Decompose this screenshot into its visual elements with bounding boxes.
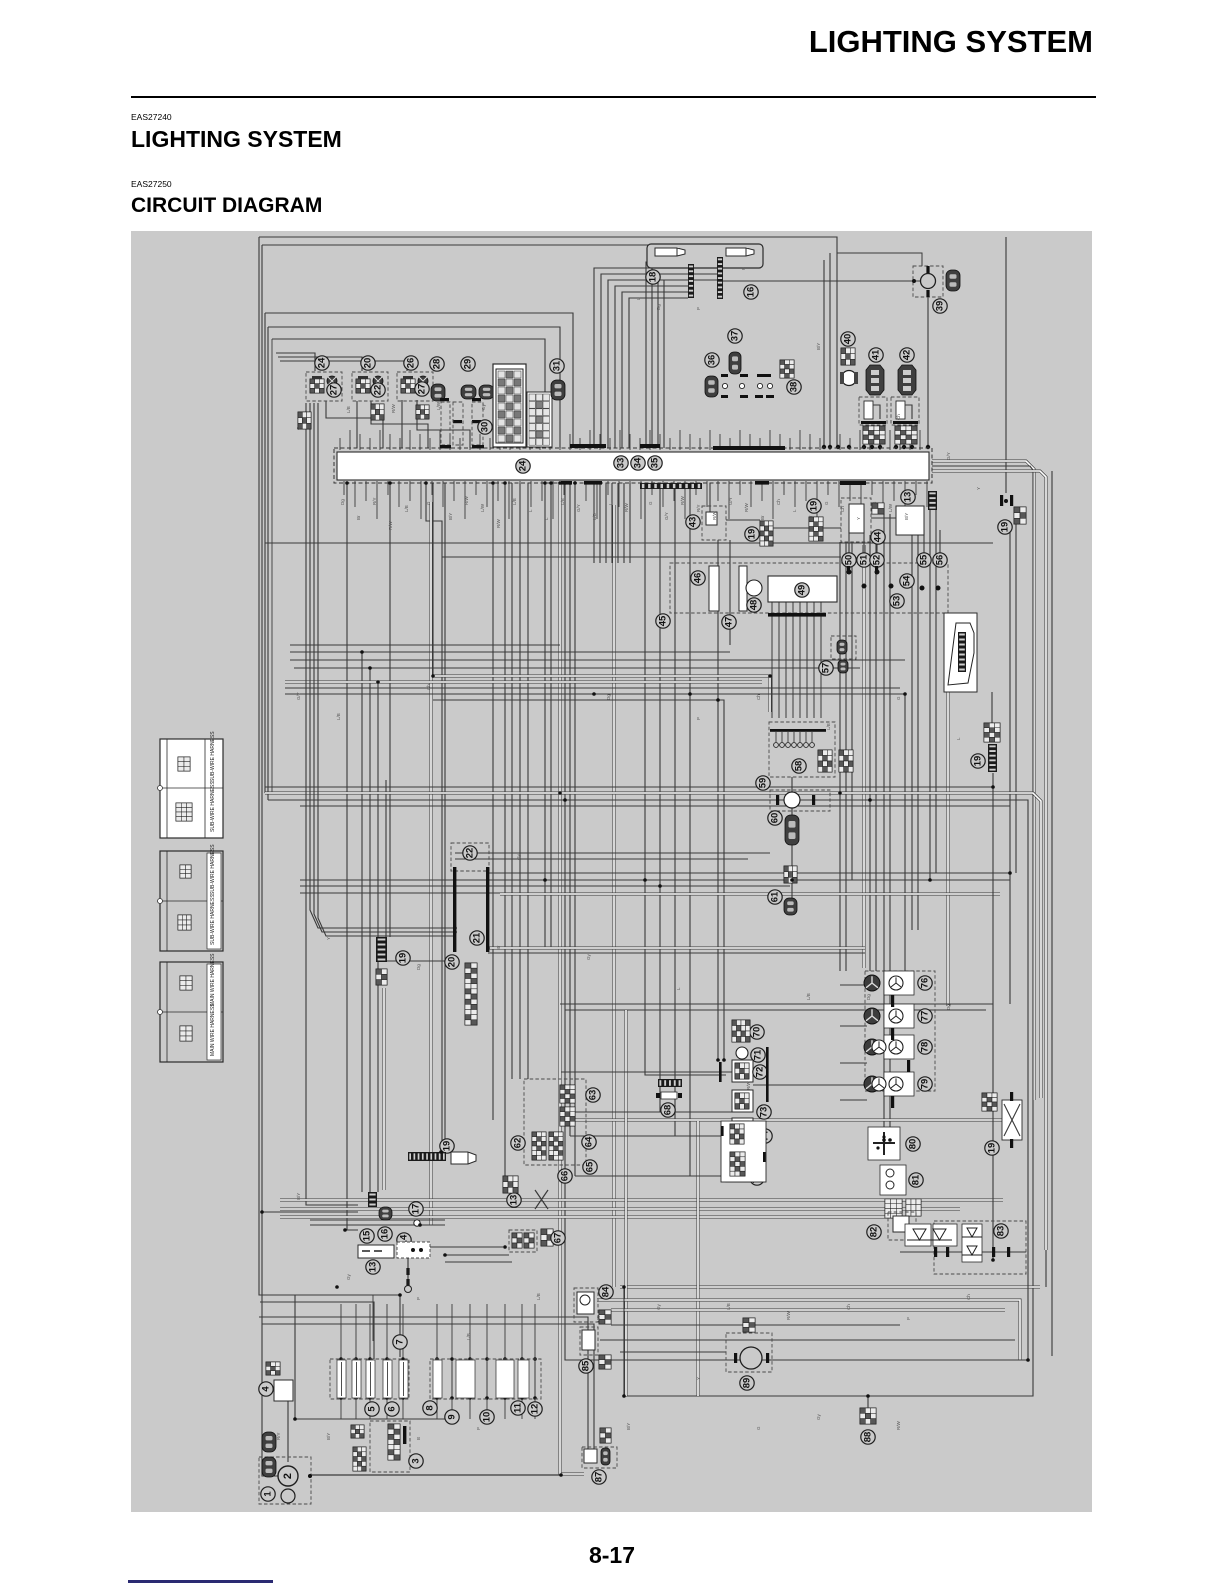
87 connector top xyxy=(600,1428,611,1443)
switch row 77 xyxy=(884,1004,914,1028)
circled 14 xyxy=(397,1233,411,1247)
wire battery main xyxy=(310,1474,561,1476)
wire drop 849 xyxy=(848,530,850,556)
svg-text:R/W: R/W xyxy=(680,496,685,506)
wire headlight lead 6 xyxy=(629,298,688,448)
circled 16 xyxy=(378,1227,392,1241)
svg-text:40: 40 xyxy=(843,334,854,345)
svg-text:Br: Br xyxy=(760,515,765,520)
wire bar right exit 3 xyxy=(932,471,1046,1250)
wire mid 660 xyxy=(290,659,905,661)
wire branch to flasher 1 xyxy=(276,353,315,371)
wire 19 link xyxy=(387,960,451,962)
svg-text:19: 19 xyxy=(987,1143,998,1154)
svg-text:Dg: Dg xyxy=(946,1004,951,1010)
circled 48 xyxy=(747,598,761,612)
oval 61b xyxy=(784,898,797,915)
wire drop 370 xyxy=(369,668,371,1192)
svg-text:81: 81 xyxy=(911,1174,922,1185)
ECU bus bar xyxy=(768,613,826,617)
ECU circle xyxy=(746,580,762,596)
circled 63 xyxy=(586,1088,600,1102)
wire ecu harness drops xyxy=(771,602,773,718)
svg-text:27: 27 xyxy=(417,384,428,395)
svg-text:B/Y: B/Y xyxy=(296,1193,301,1200)
switch row 76 xyxy=(884,971,914,995)
svg-text:83: 83 xyxy=(996,1226,1007,1237)
wire tail lamp run xyxy=(723,280,922,282)
fuse wires overlay L xyxy=(341,1362,343,1396)
wire drop 433 xyxy=(432,483,434,676)
turn signal circled 20 xyxy=(361,356,375,370)
svg-text:G/Y: G/Y xyxy=(728,497,733,505)
circled 36 xyxy=(705,353,719,367)
wire headlight lead 1 xyxy=(594,268,688,448)
svg-text:43: 43 xyxy=(688,517,699,528)
connector column 20 xyxy=(465,963,477,1025)
circled 52 xyxy=(870,553,884,567)
comb 17 xyxy=(368,1192,377,1207)
grid 64b xyxy=(549,1132,563,1160)
footer mark xyxy=(128,1580,273,1583)
wire drop 660 xyxy=(660,483,732,1112)
svg-text:13: 13 xyxy=(903,492,914,503)
svg-text:G: G xyxy=(896,696,901,700)
svg-text:52: 52 xyxy=(872,555,883,566)
meter bulb 40 xyxy=(842,371,857,386)
switch B white 2 xyxy=(732,1090,753,1112)
wire 87 drop 2 xyxy=(262,1324,594,1450)
svg-text:59: 59 xyxy=(758,778,769,789)
page number xyxy=(0,1542,1224,1569)
svg-text:22: 22 xyxy=(373,385,384,396)
diode bus bars xyxy=(934,1247,937,1257)
wire headlight lead b1 xyxy=(646,262,717,448)
relay 84 dashed xyxy=(574,1288,598,1322)
wire headlight lead b4 xyxy=(664,280,717,448)
wire drop 918 xyxy=(917,535,919,930)
svg-text:18: 18 xyxy=(648,272,659,283)
headlight bulb 1 xyxy=(655,248,685,256)
svg-text:Gy: Gy xyxy=(481,403,486,410)
svg-text:28: 28 xyxy=(432,359,443,370)
svg-text:Br: Br xyxy=(496,945,501,950)
wire low 1212 xyxy=(262,1211,358,1213)
svg-text:MAIN WIRE HARNESS: MAIN WIRE HARNESS xyxy=(210,1003,216,1056)
wire drop 710 xyxy=(709,483,711,520)
horn circle xyxy=(740,1347,762,1369)
turn signal circled 24 xyxy=(315,356,329,370)
oval connector row 1 xyxy=(431,384,445,401)
battery junction xyxy=(308,1474,312,1478)
svg-text:L/B: L/B xyxy=(726,1303,731,1310)
grid connector 38 xyxy=(780,360,794,378)
turn signal connector box 1 xyxy=(306,372,342,401)
wire mid 953 xyxy=(488,952,865,954)
svg-text:84: 84 xyxy=(601,1286,612,1297)
circled 24 harness xyxy=(516,459,530,473)
circled 35 xyxy=(648,456,662,470)
svg-text:Gy: Gy xyxy=(346,1273,351,1280)
wire switch right a xyxy=(753,1084,882,1086)
switch row 79 xyxy=(884,1072,914,1096)
svg-text:15: 15 xyxy=(362,1230,373,1241)
svg-text:10: 10 xyxy=(482,1412,493,1423)
battery circle xyxy=(278,1466,298,1486)
wire mid 700 xyxy=(433,700,724,1060)
wire drop 560a xyxy=(560,483,584,1474)
wire mid 853 xyxy=(455,852,770,854)
svg-text:57: 57 xyxy=(821,663,832,674)
fuse strip R3 xyxy=(496,1360,514,1398)
svg-text:G/Y: G/Y xyxy=(946,452,951,460)
svg-text:44: 44 xyxy=(873,531,884,542)
circled 18 xyxy=(646,270,660,284)
xcross 13 xyxy=(535,1190,548,1209)
wire drop 940 xyxy=(939,530,941,556)
wire band 1209 double xyxy=(280,1208,960,1211)
wire diag merge 1 xyxy=(310,403,455,928)
svg-text:Y: Y xyxy=(976,487,981,490)
grid 67 right xyxy=(541,1229,553,1246)
wire low 1262 xyxy=(445,1261,512,1263)
wire drop 864 xyxy=(863,530,865,556)
svg-text:54: 54 xyxy=(902,575,913,586)
svg-text:L/B: L/B xyxy=(826,723,831,730)
3 conn b xyxy=(353,1447,366,1471)
main wire harness bar xyxy=(337,452,929,480)
wire branch top 1 xyxy=(265,313,573,448)
headlight bulb 2 xyxy=(726,248,754,256)
white pair 81 xyxy=(885,1199,902,1218)
battery ground circle xyxy=(281,1489,295,1503)
svg-text:R/W: R/W xyxy=(744,503,749,513)
wire drop 390 xyxy=(389,483,391,937)
resistor 68 comb xyxy=(658,1079,682,1087)
svg-text:Dg: Dg xyxy=(340,499,345,505)
svg-text:R/W: R/W xyxy=(786,1311,791,1321)
wire mid 806 xyxy=(300,805,1010,807)
wire drop 575 xyxy=(574,483,576,1176)
circled 76 xyxy=(918,976,932,990)
diode dashed box xyxy=(934,1221,1026,1274)
connector 42 xyxy=(898,365,916,395)
svg-text:P: P xyxy=(696,307,701,310)
wire drop 347 xyxy=(347,483,358,1230)
grid connector 44 xyxy=(872,503,884,514)
svg-text:Gy: Gy xyxy=(656,1303,661,1310)
wire bar right exit 1 xyxy=(932,461,1034,1100)
wire drop 306 xyxy=(306,403,358,1205)
svg-text:63: 63 xyxy=(588,1090,599,1101)
svg-text:Ch: Ch xyxy=(756,694,761,700)
circled 1 xyxy=(261,1487,275,1501)
junction pair 1006 xyxy=(1000,495,1003,506)
wire headlight lead 3 xyxy=(608,280,688,448)
wire fuse strip wires L xyxy=(340,1304,342,1419)
wire drop 624 xyxy=(623,483,625,563)
wire branch to flasher 2 xyxy=(278,357,362,371)
header rule xyxy=(131,96,1096,98)
conn 85 xyxy=(599,1355,611,1369)
circled 5 xyxy=(365,1402,379,1416)
oval 17 xyxy=(379,1207,392,1220)
wire mid 543 xyxy=(265,542,993,544)
circled 88 xyxy=(861,1430,875,1444)
turn box drop jog 3 xyxy=(417,400,470,448)
svg-text:L/B: L/B xyxy=(592,513,597,520)
wire switch feed b xyxy=(565,1111,732,1113)
connector below box2 xyxy=(371,404,384,420)
svg-text:16: 16 xyxy=(746,287,757,298)
switch row 78 xyxy=(884,1035,914,1059)
wire drop 551 xyxy=(550,483,552,948)
tail lamp junctions xyxy=(926,266,929,273)
svg-text:60: 60 xyxy=(770,813,781,824)
svg-text:L/B: L/B xyxy=(346,406,351,413)
circled 55 xyxy=(917,553,931,567)
wire drop 890 xyxy=(889,514,891,1140)
ECU main box xyxy=(768,576,837,602)
svg-text:42: 42 xyxy=(902,350,913,361)
circled 16 xyxy=(744,285,758,299)
wire jog 426 xyxy=(426,483,442,1152)
circled 45 xyxy=(656,614,670,628)
wire band 1200 double xyxy=(280,1199,1003,1202)
main switch grid xyxy=(266,1362,280,1375)
circled 59 xyxy=(756,776,770,790)
harness bottom pin strip xyxy=(640,483,702,489)
circled 31 xyxy=(550,359,564,373)
wire mid double 2 xyxy=(285,681,762,684)
circled 83 xyxy=(994,1224,1008,1238)
svg-text:Gy: Gy xyxy=(586,953,591,960)
circled 50 xyxy=(842,553,856,567)
circled 40 xyxy=(841,332,855,346)
circled 28 xyxy=(430,357,444,371)
svg-text:21: 21 xyxy=(472,932,483,943)
fuse strip L2 xyxy=(352,1360,361,1398)
shield dash c xyxy=(472,402,483,445)
svg-text:R/W: R/W xyxy=(746,1081,751,1091)
wire drop 675 xyxy=(675,483,732,1136)
switch 81 white xyxy=(880,1165,906,1195)
license comb xyxy=(408,1152,446,1161)
ECU strip 1 xyxy=(709,566,719,611)
diode triangles 2 xyxy=(933,1224,957,1246)
wire switch feed a xyxy=(561,1071,732,1073)
circled 34 xyxy=(631,456,645,470)
svg-text:L/B: L/B xyxy=(560,498,565,505)
fuse strip R4 xyxy=(518,1360,529,1398)
wire mid double 948 xyxy=(488,947,865,950)
circled 51 xyxy=(857,553,871,567)
svg-text:24: 24 xyxy=(518,460,529,471)
relay 82 xyxy=(888,1212,916,1240)
circled 10 xyxy=(480,1410,494,1424)
circled 53 xyxy=(890,594,904,608)
wire drop 992 xyxy=(991,692,993,723)
wire drop 698 double xyxy=(697,1121,700,1396)
turn signal connector box 2 xyxy=(352,372,388,401)
wire mid 688 xyxy=(285,687,900,689)
svg-text:R/W: R/W xyxy=(712,511,717,521)
wire low 1419 xyxy=(295,1418,455,1420)
circled 37 xyxy=(728,329,742,343)
wire mid 787 xyxy=(265,786,993,788)
svg-text:56: 56 xyxy=(935,555,946,566)
circled 20 mid xyxy=(445,955,459,969)
circled 87 xyxy=(592,1470,606,1484)
wire mid 557 xyxy=(442,556,841,558)
svg-text:82: 82 xyxy=(869,1227,880,1238)
circled 22 mid xyxy=(463,846,477,860)
contact circles mid xyxy=(722,383,727,388)
subsection heading xyxy=(131,194,322,218)
ECU dashed box xyxy=(670,563,948,613)
svg-text:L/W: L/W xyxy=(888,503,893,512)
relay 67 dashed xyxy=(509,1230,537,1252)
wire drop 877 xyxy=(876,530,878,556)
ECU strip 2 xyxy=(739,566,747,611)
wire low right 1352 xyxy=(620,1351,726,1353)
wire drop 626 double xyxy=(625,1010,628,1396)
switch B grid 74 xyxy=(730,1124,744,1144)
wire drop 362 xyxy=(361,652,363,1192)
wire drop 936 xyxy=(935,510,937,873)
wire drop 614 double xyxy=(613,505,616,1287)
circled 19 c xyxy=(807,499,821,513)
wire drop 930 xyxy=(929,510,931,880)
turn signal circled 26 xyxy=(404,356,418,370)
circled 89 xyxy=(740,1376,754,1390)
wire drop 386 xyxy=(385,780,387,937)
circled 82 xyxy=(867,1225,881,1239)
relay box 1 xyxy=(859,397,887,425)
wire drop 846 xyxy=(845,542,847,971)
circled 7 xyxy=(393,1335,407,1349)
resistor 68 body xyxy=(661,1092,677,1099)
xcross 19 xyxy=(1002,1100,1022,1140)
switch B white 3 xyxy=(732,1118,753,1140)
wire drop 528 xyxy=(527,483,529,1079)
grid 63a xyxy=(560,1085,575,1103)
svg-text:P: P xyxy=(696,717,701,720)
junction bar c xyxy=(472,398,481,401)
svg-text:Ch: Ch xyxy=(426,684,431,690)
switch B bars xyxy=(719,1062,722,1082)
dash box relay mid xyxy=(841,498,871,542)
svg-text:39: 39 xyxy=(935,301,946,312)
svg-text:Y: Y xyxy=(696,1377,701,1380)
junction bar left xyxy=(453,867,456,952)
wire tail vertical right xyxy=(927,297,929,448)
headlight comb 2 xyxy=(717,257,723,299)
svg-text:SUB-WIRE HARNESS: SUB-WIRE HARNESS xyxy=(210,731,216,782)
circled 84 xyxy=(599,1285,613,1299)
svg-text:50: 50 xyxy=(844,555,855,566)
svg-text:51: 51 xyxy=(859,554,870,565)
ECU inner blobs xyxy=(847,570,852,575)
wire drop 570 xyxy=(569,483,571,1136)
wire headlight lead 4 xyxy=(615,286,688,448)
wire switch feed d xyxy=(575,1175,726,1177)
wire drop 545 xyxy=(544,483,546,948)
comb 58b xyxy=(839,750,853,772)
circled 4 xyxy=(259,1382,273,1396)
wire drop 512 xyxy=(511,483,513,1079)
svg-text:Dg: Dg xyxy=(606,694,611,700)
svg-text:B/Y: B/Y xyxy=(448,513,453,520)
grid connector 19b xyxy=(760,521,773,546)
circled 9 xyxy=(445,1410,459,1424)
svg-text:Y: Y xyxy=(856,517,861,520)
switch contact 17 xyxy=(414,1220,420,1226)
wire link rb xyxy=(726,519,760,521)
svg-text:G: G xyxy=(756,1426,761,1430)
junction bars 59 xyxy=(776,795,779,805)
svg-text:Gy: Gy xyxy=(516,853,521,860)
grid 64a xyxy=(532,1132,546,1160)
license bulb xyxy=(451,1152,476,1164)
wire mid long 694 xyxy=(285,694,905,971)
circled 58 xyxy=(792,759,806,773)
svg-text:L/B: L/B xyxy=(512,498,517,505)
wire low vert 993b xyxy=(992,1098,994,1260)
relay 85 art xyxy=(582,1330,595,1350)
wire low 1225 xyxy=(310,1224,445,1226)
wire mid 893 xyxy=(500,893,1000,896)
svg-text:22: 22 xyxy=(465,848,476,859)
legend box B xyxy=(160,851,223,951)
circled 66 xyxy=(558,1169,572,1183)
svg-text:38: 38 xyxy=(789,382,800,393)
wire low right 1325 xyxy=(611,1324,900,1326)
svg-text:Br: Br xyxy=(808,515,813,520)
circled 27 b xyxy=(415,382,429,396)
svg-text:7: 7 xyxy=(395,1339,406,1344)
wire drop 718 xyxy=(717,540,719,1060)
oval connector 36 xyxy=(705,376,718,397)
88 connector xyxy=(860,1408,876,1424)
comb 58a xyxy=(818,750,832,772)
svg-text:5: 5 xyxy=(367,1406,378,1412)
battery oval 1 xyxy=(262,1432,276,1452)
svg-text:20: 20 xyxy=(363,358,374,369)
svg-text:MAIN WIRE HARNESS: MAIN WIRE HARNESS xyxy=(210,953,216,1006)
svg-text:48: 48 xyxy=(749,600,760,611)
wire low right 1340 xyxy=(600,1339,1015,1341)
wire headlight lead 2 xyxy=(601,274,688,448)
oval connector 37 xyxy=(729,352,741,374)
wire drop 612 xyxy=(611,483,613,563)
circled 64 xyxy=(582,1135,596,1149)
section heading xyxy=(131,126,342,153)
wire 59 chain xyxy=(791,777,793,792)
connector 40 xyxy=(841,348,855,365)
wire drop 505 xyxy=(504,483,506,1176)
svg-text:R/W: R/W xyxy=(896,1421,901,1431)
wire mid 668 xyxy=(294,667,860,669)
wire low vert 295 xyxy=(294,1295,296,1419)
comb fuse 19 xyxy=(988,744,997,772)
svg-text:76: 76 xyxy=(920,978,931,989)
svg-text:19: 19 xyxy=(809,501,820,512)
multi-pin connector 24P xyxy=(493,364,526,447)
wire mid 645 xyxy=(290,644,560,646)
horn connectors xyxy=(743,1318,755,1332)
relay 67 grids xyxy=(512,1233,522,1248)
